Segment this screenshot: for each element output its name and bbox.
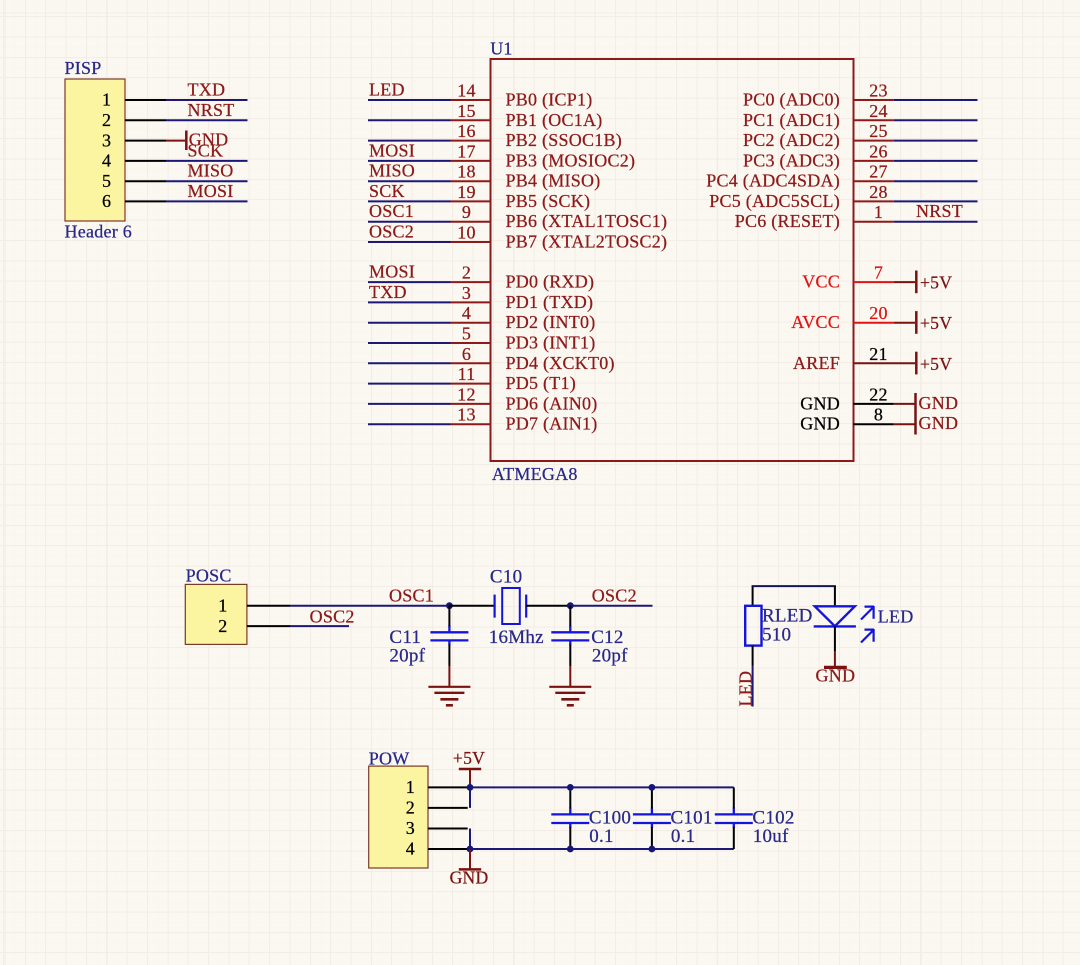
svg-text:OSC1: OSC1	[369, 201, 414, 221]
wire	[368, 200, 451, 202]
svg-text:18: 18	[457, 162, 476, 182]
ground (earth) under C11	[448, 666, 450, 687]
svg-text:PISP: PISP	[65, 58, 102, 78]
junction GND rail at POW	[467, 846, 474, 853]
svg-text:OSC1: OSC1	[389, 586, 434, 606]
svg-text:LED: LED	[878, 606, 914, 626]
svg-text:0.1: 0.1	[671, 826, 696, 847]
svg-text:AVCC: AVCC	[791, 312, 840, 332]
svg-text:13: 13	[457, 405, 476, 425]
svg-text:TXD: TXD	[369, 282, 407, 302]
U1 pin 9 PB6 (XTAL1TOSC1)	[451, 221, 491, 223]
junction top rail at C100	[567, 784, 574, 791]
svg-text:19: 19	[457, 182, 476, 202]
svg-text:+5V: +5V	[920, 273, 952, 293]
junction node OSC2	[567, 602, 574, 609]
svg-text:GND: GND	[800, 414, 840, 434]
svg-text:MOSI: MOSI	[188, 181, 234, 201]
svg-text:12: 12	[457, 384, 476, 404]
svg-text:NRST: NRST	[916, 201, 963, 221]
wire	[368, 180, 451, 182]
capacitor C102 symbol	[715, 807, 753, 828]
svg-text:GND: GND	[919, 393, 959, 413]
svg-text:MOSI: MOSI	[369, 262, 415, 282]
wire	[368, 322, 451, 324]
svg-text:14: 14	[457, 81, 476, 101]
wire pin3-pin4 vertical	[469, 829, 471, 850]
svg-text:PD3 (INT1): PD3 (INT1)	[506, 333, 596, 354]
svg-text:510: 510	[762, 625, 791, 646]
svg-text:20: 20	[869, 303, 888, 323]
svg-text:PB2 (SSOC1B): PB2 (SSOC1B)	[506, 130, 623, 151]
wire net SCK	[166, 160, 248, 162]
svg-text:GND: GND	[450, 868, 489, 888]
svg-text:U1: U1	[490, 39, 513, 59]
wire	[368, 362, 451, 364]
power port +5V above POW	[469, 769, 471, 787]
power port GND under LED	[834, 651, 836, 666]
wire LED bottom	[834, 626, 836, 651]
capacitor C12 symbol	[551, 625, 589, 645]
U1 pin 10 PB7 (XTAL2TOSC2)	[451, 241, 491, 243]
U1 pin 4 PD2 (INT0)	[451, 322, 491, 324]
wire	[368, 119, 451, 121]
svg-text:PD1 (TXD): PD1 (TXD)	[506, 292, 594, 313]
wire net top (RLED to LED)	[752, 585, 836, 587]
svg-text:10: 10	[457, 223, 476, 243]
junction +5V rail at POW	[467, 784, 474, 791]
svg-text:23: 23	[869, 81, 888, 101]
U1 pin 28 PC5 (ADC5SCL)	[854, 200, 894, 202]
U1 pin 5 PD3 (INT1)	[451, 342, 491, 344]
svg-text:4: 4	[406, 839, 415, 859]
svg-text:PD7 (AIN1): PD7 (AIN1)	[506, 414, 598, 435]
svg-text:PC2 (ADC2): PC2 (ADC2)	[743, 130, 840, 151]
svg-text:GND: GND	[800, 393, 840, 413]
power port GND below POW	[469, 849, 471, 869]
svg-text:Header 6: Header 6	[65, 221, 132, 241]
U1 pin 1 PC6 (RESET)	[854, 221, 894, 223]
svg-text:RLED: RLED	[762, 605, 813, 626]
svg-text:0.1: 0.1	[589, 826, 614, 847]
svg-text:16: 16	[457, 121, 476, 141]
svg-text:26: 26	[869, 141, 888, 161]
wire pin1-pin2 vertical	[469, 787, 471, 808]
power port GND (pin 8)	[894, 423, 915, 425]
wire	[368, 403, 451, 405]
svg-text:TXD: TXD	[188, 80, 226, 100]
wire net TXD	[166, 99, 248, 101]
svg-text:PB3 (MOSIOC2): PB3 (MOSIOC2)	[506, 150, 636, 171]
svg-text:PD5 (T1): PD5 (T1)	[506, 373, 577, 394]
svg-text:PD2 (INT0): PD2 (INT0)	[506, 312, 596, 333]
svg-text:NRST: NRST	[188, 100, 235, 120]
wire net OSC1	[290, 605, 449, 607]
wire LED top pin	[834, 586, 836, 606]
junction node OSC1	[446, 602, 453, 609]
GND power ports bar	[914, 393, 917, 435]
svg-text:24: 24	[869, 101, 888, 121]
svg-text:PB5 (SCK): PB5 (SCK)	[506, 191, 591, 212]
U1 pin 11 PD5 (T1)	[451, 383, 491, 385]
wire	[894, 200, 978, 202]
wire	[894, 140, 978, 142]
svg-text:MISO: MISO	[188, 161, 234, 181]
svg-text:PD0 (RXD): PD0 (RXD)	[506, 272, 595, 293]
svg-text:SCK: SCK	[369, 181, 405, 201]
svg-text:OSC2: OSC2	[310, 607, 355, 627]
wire	[368, 221, 451, 223]
power port GND (pin 22)	[894, 403, 915, 405]
wire	[894, 221, 978, 223]
svg-text:6: 6	[102, 191, 111, 211]
svg-text:VCC: VCC	[802, 272, 840, 292]
junction bottom rail at C101	[649, 846, 656, 853]
svg-text:OSC2: OSC2	[369, 222, 414, 242]
svg-text:OSC2: OSC2	[592, 586, 637, 606]
svg-text:5: 5	[462, 324, 471, 344]
wire GND rail	[470, 848, 734, 850]
wire	[368, 423, 451, 425]
svg-text:2: 2	[406, 798, 415, 818]
svg-text:PB1 (OC1A): PB1 (OC1A)	[506, 110, 603, 131]
svg-text:SCK: SCK	[188, 140, 224, 160]
svg-text:PD6 (AIN0): PD6 (AIN0)	[506, 393, 598, 414]
wire net NRST	[166, 119, 248, 121]
svg-text:9: 9	[462, 202, 471, 222]
svg-text:MISO: MISO	[369, 161, 415, 181]
svg-text:7: 7	[874, 263, 883, 283]
wire	[894, 119, 978, 121]
svg-text:1: 1	[406, 777, 415, 797]
svg-text:10uf: 10uf	[753, 826, 789, 847]
wire	[368, 99, 451, 101]
junction top rail at C101	[649, 784, 656, 791]
svg-text:21: 21	[869, 344, 888, 364]
power port +5V (pin 21)	[915, 352, 918, 375]
U1 pin 27 PC4 (ADC4SDA)	[854, 180, 894, 182]
ground (earth) under C12	[569, 666, 571, 687]
svg-text:GND: GND	[919, 413, 959, 433]
U1 pin 15 PB1 (OC1A)	[451, 119, 491, 121]
svg-text:25: 25	[869, 121, 888, 141]
svg-text:22: 22	[869, 384, 888, 404]
svg-text:PC6 (RESET): PC6 (RESET)	[735, 211, 840, 232]
resistor RLED symbol	[745, 606, 761, 646]
svg-text:PB4 (MISO): PB4 (MISO)	[506, 171, 601, 192]
svg-text:3: 3	[462, 283, 471, 303]
capacitor C101 symbol	[633, 807, 671, 828]
U1 pin 2 PD0 (RXD)	[451, 281, 491, 283]
svg-text:MOSI: MOSI	[369, 140, 415, 160]
U1 pin 19 PB5 (SCK)	[451, 200, 491, 202]
U1 pin 25 PC2 (ADC2)	[854, 140, 894, 142]
wire resistor top	[752, 586, 754, 606]
wire	[368, 383, 451, 385]
svg-text:1: 1	[102, 90, 111, 110]
wire crystal left pin	[449, 605, 494, 607]
svg-text:PC4 (ADC4SDA): PC4 (ADC4SDA)	[706, 171, 840, 192]
capacitor C11 symbol	[430, 625, 468, 645]
svg-text:20pf: 20pf	[592, 645, 628, 666]
U1 pin 13 PD7 (AIN1)	[451, 423, 491, 425]
wire	[368, 342, 451, 344]
svg-text:27: 27	[869, 162, 888, 182]
svg-text:3: 3	[102, 130, 111, 150]
svg-text:6: 6	[462, 344, 471, 364]
LED arrows	[861, 606, 874, 643]
diode LED symbol	[814, 606, 856, 626]
svg-text:+5V: +5V	[453, 748, 485, 768]
U1 pin 16 PB2 (SSOC1B)	[451, 140, 491, 142]
U1 pin 23 PC0 (ADC0)	[854, 99, 894, 101]
svg-text:1: 1	[874, 202, 883, 222]
wire	[368, 301, 451, 303]
U1 pin 24 PC1 (ADC1)	[854, 119, 894, 121]
svg-text:PC5 (ADC5SCL): PC5 (ADC5SCL)	[709, 191, 840, 212]
svg-text:ATMEGA8: ATMEGA8	[492, 464, 578, 484]
U1 pin 6 PD4 (XCKT0)	[451, 362, 491, 364]
wire resistor bottom	[752, 646, 754, 666]
svg-text:PB6 (XTAL1TOSC1): PB6 (XTAL1TOSC1)	[506, 211, 668, 232]
svg-text:AREF: AREF	[793, 353, 840, 373]
svg-text:C10: C10	[490, 567, 522, 588]
wire	[368, 160, 451, 162]
wire net LED (vertical)	[752, 666, 754, 707]
U1 pin 12 PD6 (AIN0)	[451, 403, 491, 405]
svg-text:+5V: +5V	[920, 313, 952, 333]
svg-text:PB0 (ICP1): PB0 (ICP1)	[506, 90, 593, 111]
svg-text:GND: GND	[816, 666, 856, 686]
svg-text:3: 3	[406, 818, 415, 838]
svg-text:17: 17	[457, 141, 476, 161]
svg-text:1: 1	[218, 595, 227, 615]
svg-text:PB7 (XTAL2TOSC2): PB7 (XTAL2TOSC2)	[506, 232, 668, 253]
wire net OSC2 (right)	[570, 605, 652, 607]
wire net OSC2 (pin2)	[290, 625, 349, 627]
U1 pin 3 PD1 (TXD)	[451, 301, 491, 303]
wire	[894, 99, 978, 101]
U1 pin 18 PB4 (MISO)	[451, 180, 491, 182]
U1 pin 26 PC3 (ADC3)	[854, 160, 894, 162]
connector POW body	[369, 766, 428, 868]
IC U1 body outline	[491, 59, 854, 461]
svg-text:PC3 (ADC3): PC3 (ADC3)	[743, 150, 840, 171]
power port +5V (pin 7)	[894, 281, 915, 283]
svg-text:LED: LED	[369, 80, 405, 100]
svg-text:PC0 (ADC0): PC0 (ADC0)	[743, 90, 840, 111]
power port +5V (pin 20)	[894, 322, 915, 324]
wire net MOSI	[166, 200, 248, 202]
wire	[368, 241, 451, 243]
svg-text:PD4 (XCKT0): PD4 (XCKT0)	[506, 353, 615, 374]
connector PISP body	[65, 79, 125, 221]
wire	[368, 140, 451, 142]
crystal C10 symbol	[495, 588, 527, 624]
svg-text:15: 15	[457, 101, 476, 121]
wire	[894, 180, 978, 182]
wire net MISO	[166, 180, 248, 182]
svg-text:16Mhz: 16Mhz	[489, 627, 544, 648]
svg-text:2: 2	[462, 263, 471, 283]
svg-text:11: 11	[458, 364, 476, 384]
svg-text:2: 2	[218, 616, 227, 636]
capacitor C100 symbol	[551, 807, 589, 828]
svg-text:5: 5	[102, 171, 111, 191]
wire	[894, 160, 978, 162]
wire +5V rail	[470, 786, 734, 788]
svg-text:PC1 (ADC1): PC1 (ADC1)	[743, 110, 840, 131]
wire	[368, 281, 451, 283]
svg-text:28: 28	[869, 182, 888, 202]
junction bottom rail at C100	[567, 846, 574, 853]
U1 pin 14 PB0 (ICP1)	[451, 99, 491, 101]
svg-text:8: 8	[874, 405, 883, 425]
svg-text:+5V: +5V	[920, 354, 952, 374]
svg-text:2: 2	[102, 110, 111, 130]
svg-text:POSC: POSC	[186, 566, 232, 586]
connector POSC body	[185, 584, 247, 644]
svg-text:LED: LED	[736, 671, 756, 707]
svg-text:20pf: 20pf	[389, 645, 425, 666]
svg-text:4: 4	[102, 151, 111, 171]
wire crystal right pin	[526, 605, 570, 607]
power port GND at PISP pin 3 (bar)	[166, 140, 185, 142]
svg-text:4: 4	[462, 303, 471, 323]
U1 pin 17 PB3 (MOSIOC2)	[451, 160, 491, 162]
